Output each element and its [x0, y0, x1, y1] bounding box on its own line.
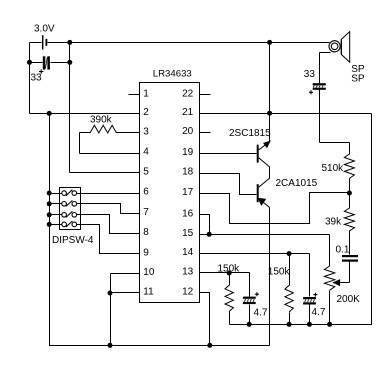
svg-text:1: 1 — [143, 89, 149, 100]
svg-text:3: 3 — [143, 127, 149, 138]
svg-text:15: 15 — [182, 228, 194, 239]
svg-text:33: 33 — [304, 69, 316, 80]
svg-text:13: 13 — [182, 267, 194, 278]
svg-text:3.0V: 3.0V — [34, 23, 55, 34]
svg-text:6: 6 — [143, 187, 149, 198]
svg-text:2SC1815: 2SC1815 — [229, 128, 271, 139]
svg-text:18: 18 — [182, 167, 194, 178]
svg-text:510k: 510k — [322, 163, 345, 174]
svg-text:LR34633: LR34633 — [153, 68, 192, 79]
svg-text:7: 7 — [143, 207, 149, 218]
svg-text:12: 12 — [182, 287, 194, 298]
svg-text:10: 10 — [143, 267, 155, 278]
svg-text:19: 19 — [182, 147, 194, 158]
svg-text:2: 2 — [143, 107, 149, 118]
svg-text:SP: SP — [351, 74, 365, 85]
svg-text:DIPSW-4: DIPSW-4 — [52, 235, 94, 246]
svg-text:11: 11 — [143, 287, 154, 298]
svg-text:2CA1015: 2CA1015 — [276, 178, 318, 189]
svg-text:14: 14 — [182, 247, 194, 258]
svg-text:4.7: 4.7 — [254, 308, 268, 319]
svg-text:9: 9 — [143, 248, 149, 259]
svg-text:150k: 150k — [268, 266, 291, 277]
svg-text:16: 16 — [182, 208, 194, 219]
svg-text:4.7: 4.7 — [312, 307, 326, 318]
svg-text:5: 5 — [143, 166, 149, 177]
svg-text:8: 8 — [143, 227, 149, 238]
svg-text:20: 20 — [182, 126, 194, 137]
svg-text:22: 22 — [182, 89, 194, 100]
svg-text:150k: 150k — [218, 264, 241, 275]
svg-text:17: 17 — [182, 187, 194, 198]
svg-text:200K: 200K — [337, 294, 361, 305]
svg-text:4: 4 — [143, 147, 149, 158]
svg-text:0.1: 0.1 — [336, 245, 350, 256]
svg-text:390k: 390k — [90, 114, 113, 125]
svg-text:33: 33 — [31, 73, 43, 84]
svg-text:39k: 39k — [325, 217, 342, 228]
svg-text:21: 21 — [182, 107, 194, 118]
